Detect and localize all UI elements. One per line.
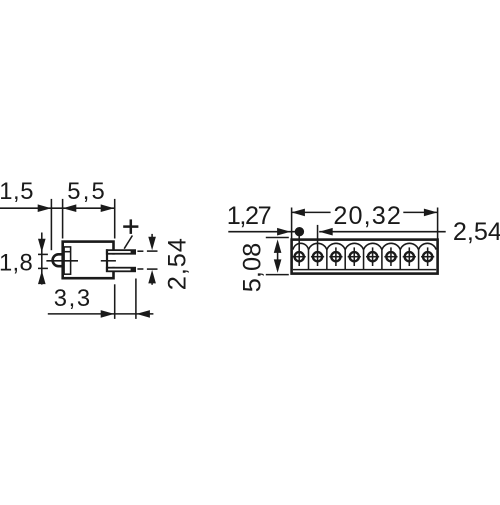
flange internal line [64,251,71,253]
LED dome lens [53,254,64,266]
ext line below body right [114,284,116,319]
extension line at body left [62,199,64,239]
horizontal centerline through dome [46,260,78,262]
dim 2,54L top tick [147,250,158,252]
LED crosshairs (8x) [293,256,306,258]
ext line below pin tips [135,279,137,319]
svg-text:1,27: 1,27 [227,202,271,230]
dim 1,8 lower tail [41,268,43,284]
dim line 20,32 left part [291,211,330,213]
dim line 2,54R tail [319,231,446,233]
arrow of dim 1,5 [38,204,52,212]
dim 2,54L upper tail [151,234,153,238]
dim 2,54L bottom tick [147,268,158,270]
leader line from plus to anode pin [124,236,132,249]
dim 2,54L bottom arrow [148,270,156,284]
open slot between pins on right side [109,255,117,267]
dim 2,54R arrow [319,228,333,236]
svg-text:3,3: 3,3 [54,285,92,312]
dim 3,3 left arrow [136,310,150,318]
dim 1,8 connector [41,254,43,268]
dim 20,32 right arrow [424,209,438,217]
dim 5,08 bottom tick [266,274,289,276]
anode pin (top lead) [106,249,136,254]
svg-text:2,54: 2,54 [164,237,192,290]
dash from anode pin tip [137,250,143,252]
dim 5,08 top tick [266,237,289,239]
LED side view body outline [63,242,114,279]
polarity plus sign [123,225,138,228]
left arrow of dim 5,5 [63,204,77,212]
svg-text:20,32: 20,32 [333,202,402,230]
dim 5,08 up arrow [274,239,282,253]
dim 3,3 right arrow [101,310,115,318]
dim 2,54L top arrow [148,237,156,251]
ext line body right top [437,208,439,239]
pin bracket vertical bar [106,249,108,272]
cathode pin (bottom lead) [106,267,136,272]
LED front flange rectangle [64,247,71,274]
svg-text:5,5: 5,5 [67,178,107,205]
cell separator walls [308,249,310,270]
center marker dot (first LED) [295,227,304,236]
LED circles (8x) [295,252,304,261]
LED array body outline [292,240,438,274]
dim line 1,5 [0,207,51,209]
dim 1,8 bottom tick [38,267,48,269]
right arrow of dim 5,5 [101,204,115,212]
dome arches (top of each LED cell) [293,243,309,249]
dim line 3,3 left part [48,313,114,315]
dim 1,27 arrow [277,228,291,236]
dim 5,08 connector [277,243,279,270]
dim line 5,5 [51,207,114,209]
anode pin white stripe [108,251,131,253]
svg-text:1,5: 1,5 [0,178,34,205]
inner bottom line of array [293,269,436,271]
svg-text:1,8: 1,8 [0,250,33,277]
dash from cathode pin tip [137,268,143,270]
dim 2,54L lower tail [151,283,153,285]
ext line body left top [291,208,293,239]
extension line at body right [114,199,116,239]
dim 20,32 left arrow [291,209,305,217]
extension line at dome tip [50,199,52,250]
dim 1,8 top tick [38,253,48,255]
dim line 20,32 right part [403,211,437,213]
horizontal centerline at pins [101,260,116,262]
dim line 3,3 middle [115,313,136,315]
dim 1,8 top arrow [38,239,46,253]
svg-text:2,54: 2,54 [453,218,500,246]
cathode pin white stripe [108,269,131,271]
dim 1,8 upper tail [41,233,43,255]
dim 1,8 bottom arrow [38,271,46,285]
dim line 1,27 [228,231,299,233]
dim 5,08 down arrow [274,259,282,273]
svg-text:5,08: 5,08 [239,243,267,292]
dim 3,3 tail [136,313,153,315]
